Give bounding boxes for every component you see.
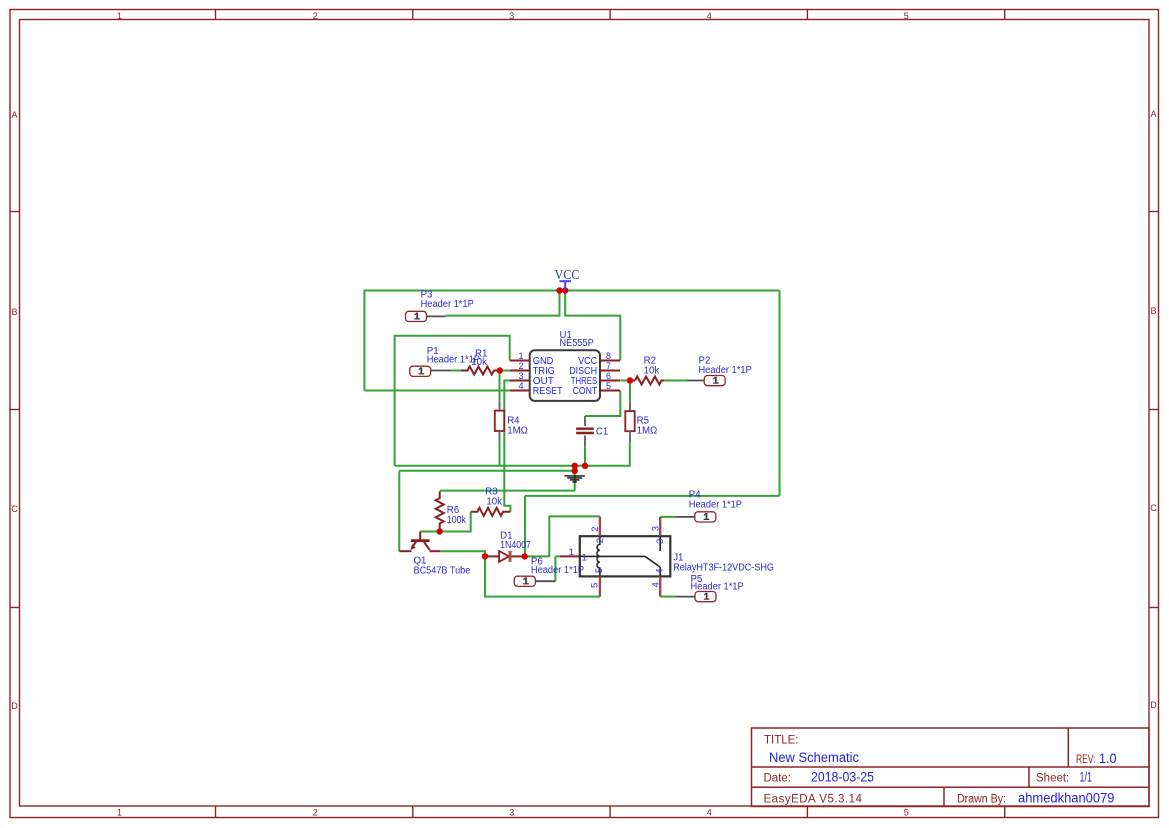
svg-text:2: 2 [590,527,601,532]
wire collector node to relay pin5 [485,558,600,597]
diode D1 1N4007 [487,551,523,562]
wire VCC feed to relay coil node [525,495,780,497]
wire relay pin3 to P4 [660,516,676,518]
svg-text:RelayHT3F-12VDC-SHG: RelayHT3F-12VDC-SHG [673,562,774,573]
resistor R4 [495,401,504,440]
wire VCC rail left drop [363,290,365,391]
wire THRES pin6 to junction [620,380,627,382]
wire junction to R2 [630,380,635,382]
resistor R5 [625,401,634,441]
wire emitter drop [398,471,400,551]
U1 pin 7 lead [600,370,620,372]
svg-text:1: 1 [117,11,122,21]
wire R4 bottom to bus [499,441,501,466]
U1 pin 6 lead [600,380,620,382]
resistor R2 [635,377,664,385]
svg-text:1.0: 1.0 [1099,751,1117,766]
wire R5 bottom [629,431,631,442]
wire P6 riser [554,556,556,581]
wire OUT pin3 down [504,381,510,512]
connector P3 [406,311,427,321]
wire R5 top [629,383,631,402]
frame tick top 4 [806,10,808,20]
wire TRIG junction to R4 [499,372,501,401]
svg-text:1MΩ: 1MΩ [637,425,658,436]
svg-text:C1: C1 [596,427,608,438]
frame tick bottom 1 [215,806,217,818]
frame tick left 2 [10,409,20,411]
svg-text:5: 5 [594,568,605,573]
svg-text:Header 1*1P: Header 1*1P [531,565,584,576]
frame tick top 1 [215,10,217,20]
node D1 anode junction [482,553,488,559]
svg-text:5: 5 [589,583,600,588]
connector P2 [704,376,725,386]
relay J1 pin 1 lead [560,555,580,557]
op-amp U1 NE555P body [530,350,600,401]
power flag VCC [555,267,580,290]
resistor R3 [471,508,511,516]
wire GND pin1 loop [395,336,510,466]
U1 pin 8 lead [600,360,620,362]
relay J1 pin 3 lead [659,517,661,536]
node base junction [437,528,443,534]
svg-text:3: 3 [509,11,514,21]
wire TRIG to pin2 [502,370,510,372]
svg-text:5: 5 [606,381,611,391]
U1 pin 4 lead [510,390,530,392]
svg-text:2: 2 [595,538,606,543]
connector P6 [514,576,535,586]
frame tick left 1 [10,211,20,213]
frame tick left 3 [10,607,20,609]
svg-text:2: 2 [518,361,523,371]
node C1 ground junction [582,463,588,469]
resistor R6 [436,492,444,530]
svg-text:2: 2 [313,808,318,818]
svg-text:5: 5 [904,808,909,818]
svg-text:1MΩ: 1MΩ [507,425,528,436]
relay J1 body [580,536,671,576]
wire collector to D1 [440,551,485,554]
svg-text:Header 1*1P: Header 1*1P [689,499,742,510]
svg-text:6: 6 [606,371,611,381]
svg-text:Header 1*1P: Header 1*1P [691,582,744,593]
wire ground bus lower [399,470,574,472]
svg-text:New Schematic: New Schematic [769,750,859,765]
frame tick right 2 [1149,409,1159,411]
node THRES junction [627,377,633,383]
svg-text:BC547B Tube: BC547B Tube [414,565,471,576]
wire CONT pin5 to C1 [585,391,620,417]
svg-text:1: 1 [117,808,122,818]
frame tick bottom 4 [806,806,808,818]
svg-text:3: 3 [651,526,662,531]
node VCC symbol junction [562,287,568,293]
wire relay pin4 to P5 [660,596,676,598]
svg-text:CONT: CONT [573,386,598,397]
relay J1 pin 3 inner stub [659,536,661,551]
frame tick top 2 [412,10,414,20]
node D1 cathode junction [522,553,528,559]
node VCC rail left junction [556,287,562,293]
svg-text:REV:: REV: [1076,754,1096,766]
U1 pin 5 lead [600,390,620,392]
svg-text:B: B [1150,306,1156,316]
svg-text:TITLE:: TITLE: [764,735,799,747]
frame tick right 1 [1149,211,1159,213]
title block row divider 2 [752,786,1150,788]
svg-text:1/1: 1/1 [1080,770,1093,785]
transistor Q1 BC547B [399,532,440,552]
svg-text:Date:: Date: [764,773,792,785]
title block row divider 1 [752,766,1150,768]
svg-text:4: 4 [655,568,666,573]
ground symbol [564,476,585,482]
svg-text:RESET: RESET [533,386,563,397]
frame tick right 3 [1149,607,1159,609]
svg-text:Drawn By:: Drawn By: [957,794,1006,806]
svg-text:Header 1*1P: Header 1*1P [421,299,474,310]
svg-text:ahmedkhan0079: ahmedkhan0079 [1018,791,1115,806]
wire base net [420,512,471,532]
svg-text:2: 2 [313,11,318,21]
svg-text:3: 3 [509,808,514,818]
svg-text:2018-03-25: 2018-03-25 [811,770,874,785]
relay J1 pin 5 lead [599,576,601,596]
node ground upper-left junction [572,463,578,469]
wire D1 cathode riser [524,496,526,554]
wire R2 to P2 [664,380,687,382]
U1 pin 3 lead [510,380,530,382]
title block DrawnBy column divider [943,787,945,806]
connector P5 [695,592,716,602]
svg-text:4: 4 [651,582,662,587]
connector P2 pin line [687,380,704,382]
frame tick top 3 [609,10,611,20]
svg-text:8: 8 [606,351,611,361]
relay J1 pin 2 lead [599,516,601,536]
svg-text:D: D [11,701,18,711]
wire ground branch to R6 [440,490,575,492]
wire ground bus upper [395,442,630,466]
svg-text:EasyEDA V5.3.14: EasyEDA V5.3.14 [764,794,863,806]
wire P6 to relay pin1 [555,555,560,557]
svg-text:VCC: VCC [555,267,580,282]
connector P4 pin line [676,516,695,518]
svg-text:Header 1*1P: Header 1*1P [427,355,480,366]
svg-text:1: 1 [569,547,574,558]
svg-text:C: C [11,504,18,514]
connector P4 [695,512,716,522]
svg-text:Sheet:: Sheet: [1036,773,1069,785]
svg-text:100k: 100k [447,515,466,526]
wire VCC right drop [779,291,781,496]
frame tick bottom 3 [609,806,611,818]
relay J1 pin 4 inner stub [659,567,661,577]
svg-text:4: 4 [707,11,712,21]
svg-text:1N4007: 1N4007 [500,540,531,551]
node ground lower junction [572,468,578,474]
svg-text:5: 5 [904,11,909,21]
node TRIG junction [497,367,503,373]
svg-text:B: B [11,307,17,317]
svg-text:D: D [1150,700,1157,710]
svg-text:4: 4 [518,381,523,391]
U1 pin 1 lead [510,360,530,362]
wire C1 bottom to bus [584,446,586,465]
svg-text:A: A [1150,109,1156,119]
wire P1 to R1 [451,370,462,372]
relay J1 pin 4 lead [659,576,661,596]
wire D1 cathode to coil [527,516,600,556]
connector P1 pin line [431,370,451,372]
svg-text:7: 7 [606,361,611,371]
svg-text:3: 3 [655,539,666,544]
svg-text:3: 3 [518,371,523,381]
title block REV column divider [1067,728,1069,767]
connector P5 pin line [676,596,695,598]
capacitor C1 [576,416,594,446]
frame tick bottom 2 [412,806,414,818]
wire VCC to pin8 [565,291,620,361]
connector P6 pin line [535,580,555,582]
svg-text:10k: 10k [644,365,660,376]
wire VCC rail [364,290,779,292]
relay J1 switch blade [645,556,660,567]
svg-text:1: 1 [518,351,523,361]
frame tick top 5 [1004,10,1006,20]
wire RESET pin4 net [364,390,509,392]
svg-text:1: 1 [582,553,587,564]
svg-text:10k: 10k [486,496,502,507]
U1 pin 2 lead [510,370,530,372]
wire ground stem [574,466,576,491]
svg-text:C: C [1150,503,1157,513]
svg-text:Header 1*1P: Header 1*1P [699,365,752,376]
relay J1 switch common [580,555,645,557]
title block Sheet column divider [1028,767,1030,787]
wire P3 riser [446,291,560,316]
resistor R1 [461,367,497,375]
connector P3 pin line [427,315,446,317]
svg-text:NE555P: NE555P [560,338,594,349]
svg-text:A: A [11,110,17,120]
title block outline [752,728,1150,807]
relay J1 coil [597,536,600,576]
frame tick bottom 5 [1004,806,1006,818]
svg-text:4: 4 [707,808,712,818]
connector P1 [410,366,431,376]
